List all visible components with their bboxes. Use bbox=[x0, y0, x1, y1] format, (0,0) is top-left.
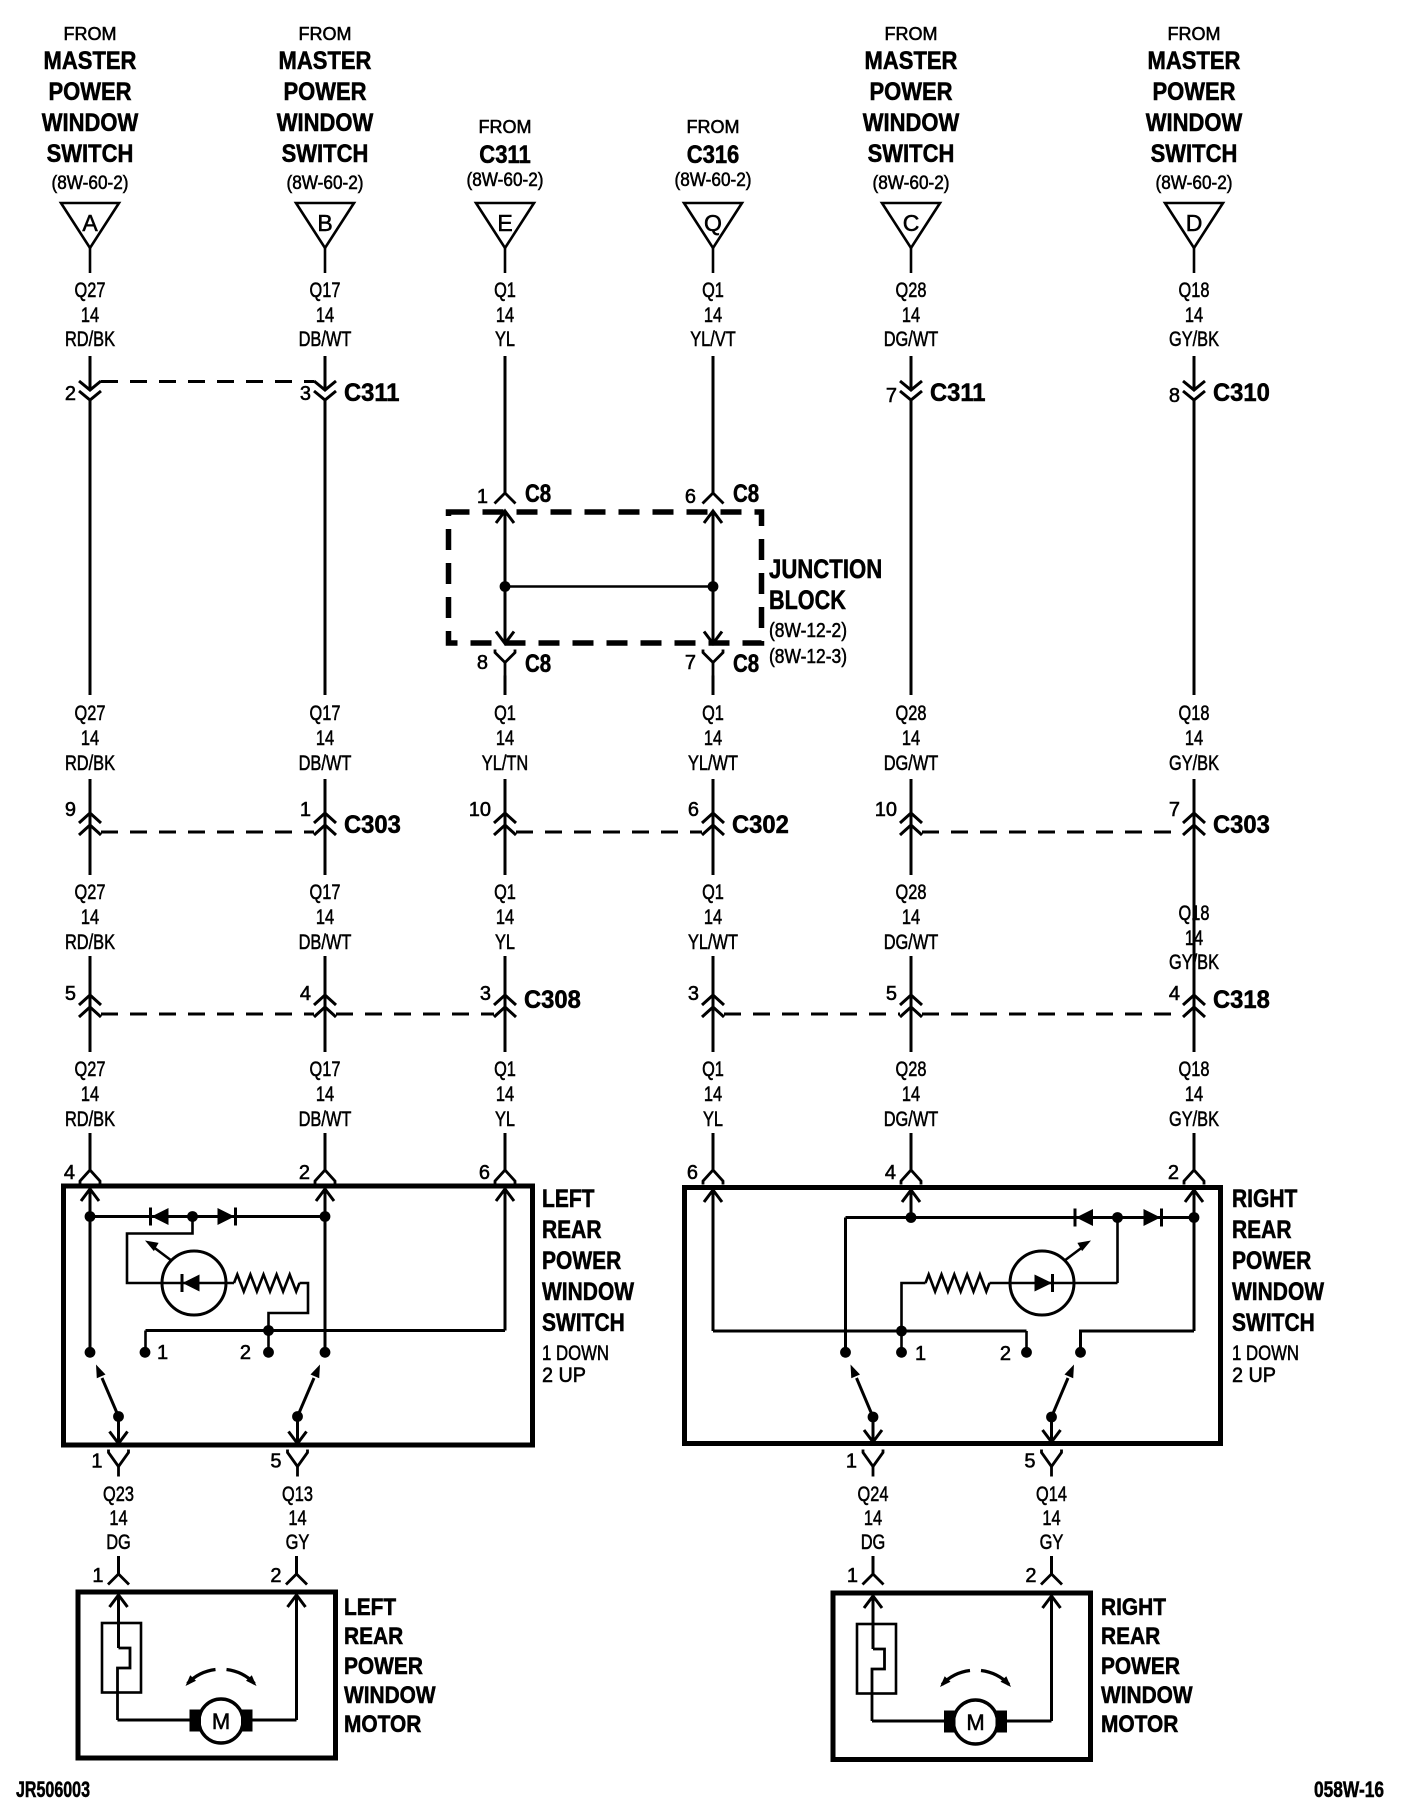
svg-text:POWER: POWER bbox=[48, 78, 131, 106]
svg-text:DB/WT: DB/WT bbox=[299, 328, 352, 351]
left rear power window switch box outline bbox=[64, 1186, 533, 1445]
off-page triangle connector Q bbox=[684, 203, 742, 248]
svg-text:MASTER: MASTER bbox=[865, 47, 958, 75]
svg-text:(8W-60-2): (8W-60-2) bbox=[675, 170, 752, 191]
svg-text:POWER: POWER bbox=[542, 1247, 621, 1275]
svg-text:WINDOW: WINDOW bbox=[1232, 1278, 1324, 1306]
svg-text:2: 2 bbox=[1168, 1162, 1179, 1184]
right motor wire pin2 vertical bbox=[1050, 1596, 1053, 1721]
wire B through connector row bbox=[324, 779, 327, 875]
svg-text:1: 1 bbox=[846, 1451, 857, 1473]
right motor circuit breaker element bbox=[872, 1649, 885, 1721]
svg-text:6: 6 bbox=[687, 1162, 698, 1184]
svg-text:Q17: Q17 bbox=[310, 881, 341, 904]
svg-text:14: 14 bbox=[496, 1083, 514, 1106]
svg-text:GY/BK: GY/BK bbox=[1169, 1108, 1219, 1131]
left motor circuit breaker element bbox=[118, 1648, 131, 1720]
left switch pin 2 arrow bbox=[316, 1189, 334, 1201]
svg-text:14: 14 bbox=[1042, 1507, 1060, 1530]
svg-text:7: 7 bbox=[886, 385, 897, 407]
svg-text:Q1: Q1 bbox=[702, 1058, 724, 1081]
left switch LED indicator arrow bbox=[145, 1241, 172, 1262]
connector fork left switch pin 4 bbox=[64, 1162, 100, 1185]
left switch top bus wire bbox=[90, 1215, 325, 1218]
right switch pole node left bbox=[840, 1347, 851, 1358]
svg-text:Q17: Q17 bbox=[310, 279, 341, 302]
svg-text:(8W-60-2): (8W-60-2) bbox=[467, 170, 544, 191]
svg-text:1: 1 bbox=[157, 1342, 168, 1364]
connector C318 pin 5 (column C) bbox=[886, 983, 922, 1017]
svg-text:058W-16: 058W-16 bbox=[1314, 1777, 1384, 1802]
right switch wire bus to contact 1 bbox=[900, 1331, 903, 1352]
svg-text:(8W-12-2): (8W-12-2) bbox=[769, 620, 847, 642]
wire C through lower connector row bbox=[910, 956, 913, 1052]
svg-text:14: 14 bbox=[316, 727, 334, 750]
svg-text:Q28: Q28 bbox=[896, 881, 927, 904]
left switch pin 6 arrow bbox=[496, 1189, 514, 1201]
left switch LED circle bbox=[162, 1251, 226, 1315]
svg-text:YL: YL bbox=[495, 328, 515, 351]
svg-text:WINDOW: WINDOW bbox=[1101, 1682, 1193, 1709]
svg-text:MASTER: MASTER bbox=[1148, 47, 1241, 75]
right switch pin 4 arrow bbox=[902, 1190, 920, 1202]
svg-text:Q27: Q27 bbox=[75, 1058, 106, 1081]
header text column C311: FROM C311 (8W-60-2) bbox=[467, 117, 544, 191]
svg-text:Q1: Q1 bbox=[494, 881, 516, 904]
svg-text:5: 5 bbox=[886, 983, 897, 1005]
svg-text:DG: DG bbox=[861, 1531, 886, 1554]
svg-text:14: 14 bbox=[1185, 927, 1203, 950]
svg-text:Q13: Q13 bbox=[282, 1483, 313, 1506]
svg-text:14: 14 bbox=[316, 304, 334, 327]
wire A through connector row bbox=[89, 779, 92, 875]
svg-text:1 DOWN: 1 DOWN bbox=[1232, 1342, 1299, 1365]
svg-text:(8W-60-2): (8W-60-2) bbox=[52, 173, 129, 194]
dashed connector line C-D (C318) bbox=[922, 1013, 1183, 1016]
svg-text:Q1: Q1 bbox=[494, 702, 516, 725]
dashed connector line C-D (C303) bbox=[922, 831, 1183, 834]
left motor circuit breaker outline bbox=[102, 1623, 141, 1693]
right rear power window motor box outline bbox=[833, 1593, 1091, 1760]
svg-text:MASTER: MASTER bbox=[44, 47, 137, 75]
svg-text:SWITCH: SWITCH bbox=[542, 1309, 625, 1337]
svg-text:YL: YL bbox=[495, 931, 515, 954]
connector C318 pin 3 (column Q) bbox=[688, 983, 724, 1017]
wire E through connector row bbox=[504, 779, 507, 875]
connector C303 pin 1 (column B) bbox=[300, 799, 401, 839]
right switch junction dot on bus bbox=[896, 1326, 907, 1337]
svg-text:Q1: Q1 bbox=[702, 881, 724, 904]
svg-text:YL: YL bbox=[703, 1108, 723, 1131]
svg-text:2: 2 bbox=[299, 1162, 310, 1184]
dashed connector line A-B (C303) bbox=[101, 831, 314, 834]
svg-text:3: 3 bbox=[300, 383, 311, 405]
wire Q inside junction block bbox=[712, 511, 715, 642]
svg-text:14: 14 bbox=[864, 1507, 882, 1530]
wire D down to next label bbox=[1193, 400, 1196, 695]
left switch wire to illumination LED bbox=[127, 1217, 193, 1284]
svg-text:YL/VT: YL/VT bbox=[690, 328, 736, 351]
svg-text:JR506003: JR506003 bbox=[16, 1777, 90, 1802]
wire Q from label down to junction block connector C8 bbox=[712, 356, 715, 493]
wire E below junction block bbox=[504, 676, 507, 696]
wire D through connector row bbox=[1193, 779, 1196, 1052]
connector fork right switch pin 6 bbox=[687, 1162, 723, 1185]
svg-text:POWER: POWER bbox=[344, 1653, 423, 1680]
connector fork right motor pin 1 bbox=[847, 1565, 884, 1587]
svg-text:1: 1 bbox=[300, 799, 311, 821]
connector fork left switch pin 5 below box bbox=[270, 1450, 307, 1477]
left switch junction dot on bus bbox=[263, 1325, 274, 1336]
dashed connector line B-E (C308) bbox=[336, 1013, 494, 1016]
svg-text:JUNCTION: JUNCTION bbox=[769, 554, 882, 584]
svg-text:14: 14 bbox=[1185, 727, 1203, 750]
wire into right switch pin 6 bbox=[712, 1133, 715, 1170]
svg-text:14: 14 bbox=[902, 727, 920, 750]
svg-text:14: 14 bbox=[902, 906, 920, 929]
wire C down to next label bbox=[910, 400, 913, 695]
svg-text:1: 1 bbox=[477, 486, 488, 508]
svg-text:3: 3 bbox=[480, 983, 491, 1005]
svg-text:YL/TN: YL/TN bbox=[482, 752, 528, 775]
right motor wire breaker to motor bbox=[872, 1720, 945, 1723]
junction node Q bbox=[708, 581, 719, 592]
svg-text:2: 2 bbox=[240, 1342, 251, 1364]
right switch wire arm2 to pin 5 exit bbox=[1050, 1417, 1053, 1442]
dashed connector line A-B (C311) bbox=[101, 380, 314, 383]
svg-text:Q1: Q1 bbox=[494, 1058, 516, 1081]
svg-text:POWER: POWER bbox=[283, 78, 366, 106]
svg-text:Q: Q bbox=[704, 210, 722, 236]
svg-text:14: 14 bbox=[81, 906, 99, 929]
svg-text:GY/BK: GY/BK bbox=[1169, 951, 1219, 974]
svg-text:C302: C302 bbox=[732, 811, 789, 839]
svg-text:Q27: Q27 bbox=[75, 702, 106, 725]
junction block pin arrow (Q top) bbox=[704, 511, 722, 523]
connector C308 pin 3 (column E) bbox=[480, 983, 581, 1017]
svg-text:C310: C310 bbox=[1213, 379, 1270, 407]
wire stub below triangle E bbox=[504, 248, 507, 273]
left motor rotation arrows bbox=[186, 1670, 257, 1687]
svg-text:POWER: POWER bbox=[1232, 1247, 1311, 1275]
svg-text:DG: DG bbox=[106, 1531, 131, 1554]
svg-text:C308: C308 bbox=[524, 986, 581, 1014]
right switch wire pin4 vertical bbox=[910, 1190, 913, 1218]
left switch LED diode (points left) bbox=[182, 1274, 200, 1292]
svg-text:7: 7 bbox=[685, 652, 696, 674]
wire into left motor pin 1 bbox=[117, 1556, 120, 1574]
svg-text:2 UP: 2 UP bbox=[542, 1364, 586, 1387]
svg-text:WINDOW: WINDOW bbox=[1146, 109, 1243, 137]
left motor M1 terminals and circle bbox=[190, 1699, 253, 1743]
svg-text:REAR: REAR bbox=[542, 1216, 602, 1244]
svg-text:14: 14 bbox=[109, 1507, 127, 1530]
connector C8 pin 8 (column E below junction block) bbox=[477, 650, 551, 679]
right switch wire pin2 vertical bbox=[1193, 1190, 1196, 1331]
svg-text:C311: C311 bbox=[930, 379, 986, 407]
svg-text:FROM: FROM bbox=[64, 24, 117, 44]
wire E inside junction block bbox=[504, 511, 507, 642]
right switch pin 2 arrow bbox=[1185, 1190, 1203, 1202]
connector fork left motor pin 1 bbox=[92, 1565, 129, 1587]
right motor wire pin1 into breaker bbox=[872, 1596, 875, 1649]
left motor pin 1 arrow bbox=[110, 1595, 128, 1607]
svg-text:Q14: Q14 bbox=[1036, 1483, 1067, 1506]
left switch diode D2 (points right) bbox=[234, 1208, 237, 1226]
svg-text:5: 5 bbox=[1024, 1451, 1035, 1473]
svg-text:M: M bbox=[212, 1709, 230, 1734]
wire into left switch pin 2 bbox=[324, 1133, 327, 1170]
svg-text:Q17: Q17 bbox=[310, 702, 341, 725]
svg-text:WINDOW: WINDOW bbox=[542, 1278, 634, 1306]
right switch pin 6 arrow bbox=[704, 1190, 722, 1202]
right switch diode D1 (points left) bbox=[1074, 1209, 1077, 1227]
svg-text:RIGHT: RIGHT bbox=[1101, 1594, 1166, 1621]
wire into right motor pin 2 bbox=[1050, 1556, 1053, 1574]
right motor label RIGHT REAR POWER WINDOW MOTOR bbox=[1101, 1594, 1193, 1738]
svg-text:YL: YL bbox=[495, 1108, 515, 1131]
svg-text:4: 4 bbox=[885, 1162, 896, 1184]
right switch LED circle bbox=[1010, 1251, 1074, 1315]
wire stub below triangle A bbox=[89, 248, 92, 273]
left switch wire resistor to contact 2 bbox=[269, 1283, 309, 1331]
right switch top bus wire bbox=[846, 1216, 1195, 1219]
svg-text:LEFT: LEFT bbox=[344, 1594, 396, 1621]
svg-text:14: 14 bbox=[81, 1083, 99, 1106]
svg-text:POWER: POWER bbox=[1152, 78, 1235, 106]
left switch wire bus to contact 2 bbox=[267, 1331, 270, 1353]
connector fork left motor pin 2 bbox=[270, 1565, 307, 1587]
left switch LED internal wire bbox=[162, 1282, 234, 1285]
wire E from label down to junction block connector C8 bbox=[504, 356, 507, 493]
left motor pin 2 arrow bbox=[288, 1595, 306, 1607]
svg-text:14: 14 bbox=[496, 727, 514, 750]
wire Q through connector row bbox=[712, 779, 715, 875]
right switch resistor R2 bbox=[926, 1275, 990, 1292]
connector C318 pin 4 (column D) bbox=[1169, 983, 1270, 1017]
left switch pole node pin4 bbox=[85, 1347, 96, 1358]
off-page triangle connector A bbox=[61, 203, 119, 248]
svg-text:DB/WT: DB/WT bbox=[299, 931, 352, 954]
svg-text:WINDOW: WINDOW bbox=[863, 109, 960, 137]
svg-text:GY: GY bbox=[1040, 1531, 1064, 1554]
right switch wire pin6 vertical bbox=[712, 1190, 715, 1331]
right switch LED indicator arrow bbox=[1064, 1241, 1091, 1262]
svg-text:14: 14 bbox=[902, 304, 920, 327]
connector fork right switch pin 1 below box bbox=[846, 1450, 883, 1477]
connector C8 pin 7 (column Q below junction block) bbox=[685, 650, 759, 679]
dashed connector line A-B (C308) bbox=[101, 1013, 314, 1016]
svg-text:D: D bbox=[1186, 210, 1203, 236]
left switch wire bus to contact 1 bbox=[144, 1331, 147, 1353]
off-page triangle connector C bbox=[882, 203, 940, 248]
svg-text:FROM: FROM bbox=[479, 117, 532, 137]
left switch lower bus wire bbox=[146, 1329, 506, 1332]
svg-text:RD/BK: RD/BK bbox=[65, 328, 115, 351]
svg-text:Q18: Q18 bbox=[1179, 702, 1210, 725]
svg-text:Q18: Q18 bbox=[1179, 279, 1210, 302]
svg-text:WINDOW: WINDOW bbox=[42, 109, 139, 137]
svg-text:14: 14 bbox=[704, 1083, 722, 1106]
right motor M2 terminals and circle bbox=[944, 1700, 1007, 1744]
wire D from label to connector bbox=[1193, 356, 1196, 390]
svg-text:5: 5 bbox=[65, 983, 76, 1005]
svg-text:2: 2 bbox=[65, 383, 76, 405]
svg-text:RD/BK: RD/BK bbox=[65, 931, 115, 954]
svg-text:14: 14 bbox=[704, 727, 722, 750]
connector fork right switch pin 2 bbox=[1168, 1162, 1204, 1185]
svg-text:4: 4 bbox=[300, 983, 311, 1005]
wire into left switch pin 6 bbox=[504, 1133, 507, 1170]
connector fork left switch pin 1 below box bbox=[91, 1450, 128, 1477]
left switch label LEFT REAR POWER WINDOW SWITCH 1 DOWN 2 UP bbox=[542, 1185, 634, 1387]
right motor pin 2 arrow bbox=[1043, 1596, 1061, 1608]
svg-text:SWITCH: SWITCH bbox=[1232, 1309, 1315, 1337]
connector fork left switch pin 6 bbox=[479, 1162, 515, 1185]
right switch pin 5 exit arrow bbox=[1043, 1430, 1061, 1442]
header text column C: FROM MASTER POWER WINDOW SWITCH (8W-60-2) bbox=[863, 24, 960, 194]
svg-text:Q28: Q28 bbox=[896, 702, 927, 725]
connector C311 pin 2 (column A) bbox=[65, 381, 101, 405]
right motor pin 1 arrow bbox=[864, 1596, 882, 1608]
svg-text:2: 2 bbox=[1025, 1565, 1036, 1587]
right motor rotation arrows bbox=[940, 1671, 1011, 1688]
svg-text:10: 10 bbox=[469, 799, 491, 821]
right switch wire top bus to left pole bbox=[844, 1218, 847, 1353]
svg-text:RD/BK: RD/BK bbox=[65, 1108, 115, 1131]
connector C311 pin 3 (column B) bbox=[300, 379, 400, 407]
svg-text:14: 14 bbox=[1185, 1083, 1203, 1106]
svg-text:Q28: Q28 bbox=[896, 279, 927, 302]
svg-text:C: C bbox=[903, 210, 920, 236]
svg-text:C316: C316 bbox=[687, 141, 740, 169]
svg-text:SWITCH: SWITCH bbox=[47, 140, 134, 168]
svg-text:DG/WT: DG/WT bbox=[884, 328, 939, 351]
svg-text:14: 14 bbox=[316, 1083, 334, 1106]
svg-text:SWITCH: SWITCH bbox=[868, 140, 955, 168]
svg-text:C303: C303 bbox=[344, 811, 401, 839]
left motor wire motor to pin 2 bbox=[253, 1719, 297, 1722]
svg-text:(8W-12-3): (8W-12-3) bbox=[769, 646, 847, 668]
left switch arm 2 (to pin 5) bbox=[292, 1365, 320, 1422]
svg-text:WINDOW: WINDOW bbox=[277, 109, 374, 137]
svg-text:B: B bbox=[317, 210, 332, 236]
junction block pin arrow (E top) bbox=[496, 511, 514, 523]
connector C308 pin 5 (column A) bbox=[65, 983, 101, 1017]
dashed connector line E-Q (C302) bbox=[516, 831, 702, 834]
header text column B: FROM MASTER POWER WINDOW SWITCH (8W-60-2) bbox=[277, 24, 374, 194]
wire B from label to connector bbox=[324, 356, 327, 390]
svg-text:REAR: REAR bbox=[1101, 1623, 1160, 1650]
wire Q through lower connector row bbox=[712, 956, 715, 1052]
left switch pin 1 exit arrow bbox=[110, 1432, 128, 1444]
svg-text:C8: C8 bbox=[525, 650, 551, 678]
off-page triangle connector E bbox=[476, 203, 534, 248]
wire Q below junction block bbox=[712, 676, 715, 696]
connector C8 pin 1 (column E into junction block) bbox=[477, 480, 551, 508]
svg-text:WINDOW: WINDOW bbox=[344, 1682, 436, 1709]
svg-text:C311: C311 bbox=[479, 141, 530, 169]
right switch contact 1 node bbox=[896, 1347, 907, 1358]
svg-text:14: 14 bbox=[704, 906, 722, 929]
left switch wire arm2 to pin 5 exit bbox=[296, 1417, 299, 1444]
wire into right motor pin 1 bbox=[872, 1556, 875, 1574]
right switch arm 2 (to pin 5) bbox=[1046, 1365, 1074, 1423]
left switch junction dot pin2 bbox=[320, 1211, 331, 1222]
right switch lower bus wire bbox=[713, 1330, 1027, 1333]
right motor wire motor to pin 2 bbox=[1007, 1720, 1052, 1723]
svg-text:14: 14 bbox=[316, 906, 334, 929]
svg-text:(8W-60-2): (8W-60-2) bbox=[287, 173, 364, 194]
svg-text:GY/BK: GY/BK bbox=[1169, 328, 1219, 351]
right switch junction dot pin4 bbox=[906, 1212, 917, 1223]
svg-text:FROM: FROM bbox=[885, 24, 938, 44]
svg-text:DB/WT: DB/WT bbox=[299, 752, 352, 775]
svg-text:YL/WT: YL/WT bbox=[688, 931, 738, 954]
connector C8 pin 6 (column Q into junction block) bbox=[685, 480, 759, 508]
header text column D: FROM MASTER POWER WINDOW SWITCH (8W-60-2) bbox=[1146, 24, 1243, 194]
right switch diode D2 (points right) bbox=[1160, 1209, 1163, 1227]
svg-text:1: 1 bbox=[91, 1451, 102, 1473]
svg-text:Q23: Q23 bbox=[103, 1483, 134, 1506]
left switch wire arm1 to pin 1 exit bbox=[117, 1417, 120, 1444]
right switch pin 1 exit arrow bbox=[864, 1430, 882, 1442]
wire C through connector row bbox=[910, 779, 913, 875]
wire stub below triangle C bbox=[910, 248, 913, 273]
left motor wire pin1 into breaker bbox=[117, 1595, 120, 1648]
svg-text:1 DOWN: 1 DOWN bbox=[542, 1342, 609, 1365]
svg-text:4: 4 bbox=[64, 1162, 75, 1184]
connector fork right switch pin 5 below box bbox=[1024, 1450, 1061, 1477]
svg-text:E: E bbox=[497, 210, 512, 236]
left switch wire pin2 vertical bbox=[324, 1189, 327, 1352]
svg-text:14: 14 bbox=[81, 727, 99, 750]
svg-text:FROM: FROM bbox=[1168, 24, 1221, 44]
svg-text:DG/WT: DG/WT bbox=[884, 931, 939, 954]
svg-text:MOTOR: MOTOR bbox=[344, 1711, 421, 1738]
svg-text:GY/BK: GY/BK bbox=[1169, 752, 1219, 775]
wire into right switch pin 2 bbox=[1193, 1133, 1196, 1170]
svg-text:A: A bbox=[82, 210, 98, 236]
left switch wire pin6 vertical bbox=[504, 1189, 507, 1331]
connector C303 pin 9 (column A) bbox=[65, 799, 101, 835]
svg-text:9: 9 bbox=[65, 799, 76, 821]
right rear power window switch box outline bbox=[685, 1188, 1221, 1444]
connector C308 pin 4 (column B) bbox=[300, 983, 336, 1017]
left switch wire pin4 vertical bbox=[89, 1189, 92, 1352]
svg-text:GY: GY bbox=[286, 1531, 310, 1554]
left switch junction dot mid diodes bbox=[187, 1211, 198, 1222]
svg-text:1: 1 bbox=[847, 1565, 858, 1587]
svg-text:14: 14 bbox=[496, 906, 514, 929]
connector C302 pin 6 (column Q) bbox=[688, 799, 789, 839]
svg-text:Q27: Q27 bbox=[75, 279, 106, 302]
left motor wire breaker to motor bbox=[118, 1719, 191, 1722]
off-page triangle connector B bbox=[296, 203, 354, 248]
svg-text:C8: C8 bbox=[733, 480, 759, 508]
wire stub below triangle D bbox=[1193, 248, 1196, 273]
left switch contact 1 node bbox=[140, 1347, 151, 1358]
dashed connector line Q-C (C318) bbox=[724, 1013, 900, 1016]
svg-text:8: 8 bbox=[477, 652, 488, 674]
left switch pole node pin2 bbox=[320, 1347, 331, 1358]
svg-text:MOTOR: MOTOR bbox=[1101, 1711, 1178, 1738]
svg-text:7: 7 bbox=[1169, 799, 1180, 821]
right switch wire bus to contact 2 bbox=[1025, 1331, 1028, 1352]
svg-text:14: 14 bbox=[288, 1507, 306, 1530]
right switch label RIGHT REAR POWER WINDOW SWITCH 1 DOWN 2 UP bbox=[1232, 1185, 1324, 1387]
svg-text:BLOCK: BLOCK bbox=[769, 585, 846, 615]
